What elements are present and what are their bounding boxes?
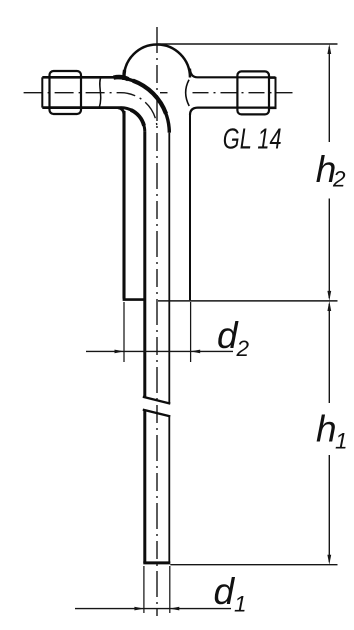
left arm tube end: [41, 77, 43, 107]
tube break upper cut line: [143, 397, 171, 404]
wide tube right wall: [189, 115, 191, 301]
crotch fillet left arm bottom to wide tube wall: [118, 108, 124, 115]
h1/h2 middle extension line: [158, 300, 338, 302]
svg-text:GL 14: GL 14: [223, 124, 282, 156]
h1 arrowheads: [327, 301, 331, 565]
left arm top line: [42, 76, 121, 79]
tube break lower cut line: [143, 410, 171, 417]
GL 14 label: [223, 124, 282, 156]
svg-text:h: h: [316, 409, 337, 450]
svg-text:2: 2: [332, 167, 346, 192]
right arm bore end (crescent): [186, 80, 190, 106]
wide tube left wall: [122, 111, 125, 299]
bend outer arc (arm top to inner tube right wall): [114, 77, 170, 133]
fillet right arm bottom to wide tube wall: [190, 108, 198, 115]
h2 arrowheads: [327, 44, 331, 301]
right arm centerline: [160, 92, 293, 94]
d1 arrowheads: [134, 607, 179, 611]
left arm bottom line: [42, 106, 120, 109]
vertical centerline: [156, 27, 158, 616]
h2 dimension line: [328, 47, 330, 298]
inner tube right wall (thin): [168, 133, 170, 563]
svg-text:1: 1: [234, 592, 247, 617]
d2 label: [217, 315, 250, 361]
dome (top of wide tube): [124, 45, 190, 78]
d2 arrowheads: [115, 350, 201, 354]
shoulder left (wide tube bottom): [123, 298, 145, 301]
bend inner arc (arm bottom to inner tube left wall): [121, 108, 145, 132]
h1 label: [316, 409, 348, 454]
right arm tube end: [269, 78, 276, 108]
bottom closure of tube: [143, 561, 170, 564]
svg-text:d: d: [214, 571, 236, 612]
inner tube left wall (thick): [143, 132, 146, 563]
h2 top extension line: [157, 43, 338, 45]
svg-text:1: 1: [335, 429, 348, 454]
d1 label: [214, 571, 247, 617]
h1 bottom extension line: [170, 564, 337, 566]
dome left flank shadow (thick): [122, 70, 126, 80]
left arm glass transition (wavy line): [99, 77, 101, 107]
right GL14 cap body: [237, 71, 269, 114]
d1 extension lines: [144, 566, 170, 613]
left GL14 cap body: [50, 71, 82, 114]
right arm top line: [198, 76, 276, 78]
left arm centerline: [24, 93, 157, 129]
fillet dome to right arm top: [190, 69, 198, 78]
h2 label: [316, 149, 346, 192]
h1 dimension line: [328, 304, 330, 562]
d2 dimension line: [86, 350, 233, 352]
right arm bottom line: [198, 106, 276, 108]
d2 extension lines: [124, 302, 191, 362]
svg-text:2: 2: [236, 336, 250, 361]
d1 dimension line: [75, 608, 231, 610]
